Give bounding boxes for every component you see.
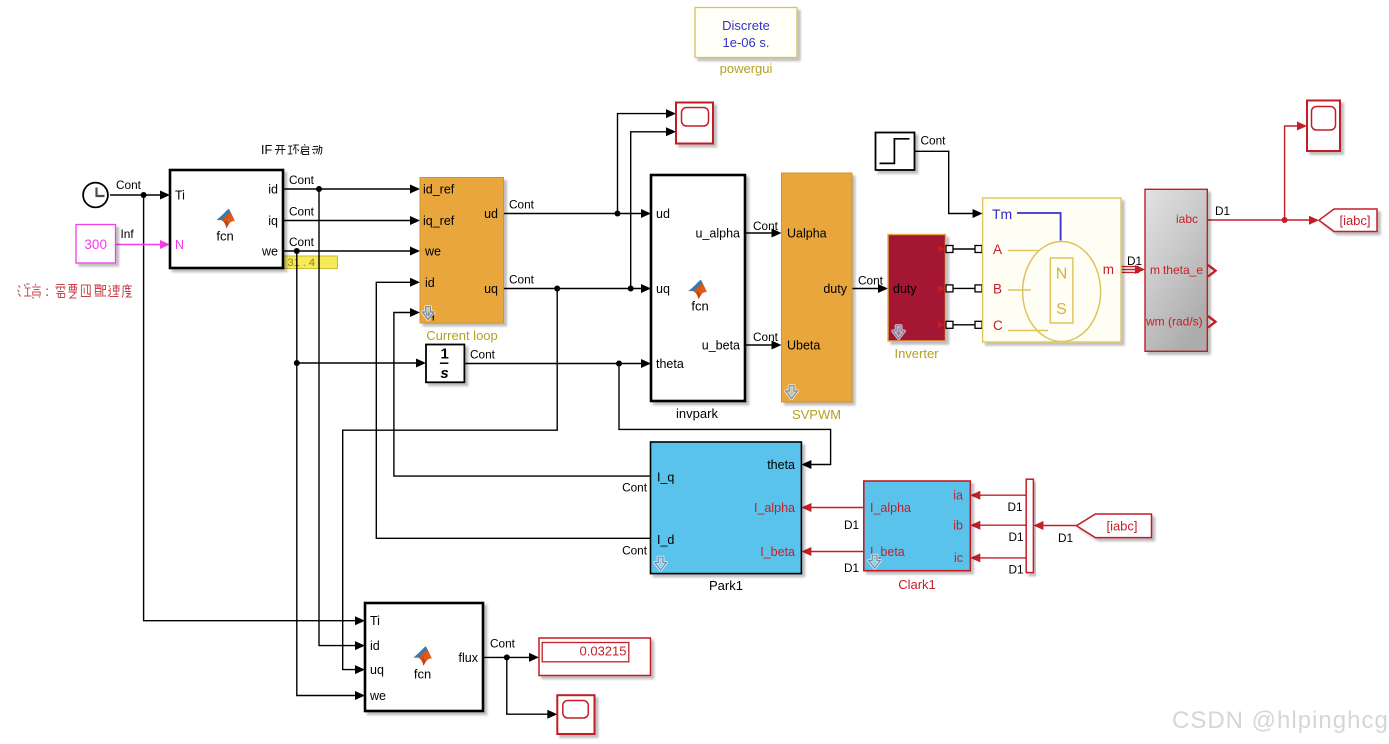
svg-text:CSDN @hlpinghcg: CSDN @hlpinghcg: [1172, 707, 1389, 734]
svg-text:m: m: [1150, 263, 1160, 277]
svg-text:D1: D1: [1058, 531, 1073, 545]
svg-text:theta: theta: [767, 458, 795, 472]
wire fcn2 flux to display: [483, 656, 534, 658]
arrow into scope1 input2: [666, 127, 676, 136]
fcn block U2 (flux MATLAB Function): [365, 603, 483, 711]
svg-text:Inverter: Inverter: [894, 346, 939, 361]
svg-text:we: we: [261, 245, 278, 259]
svg-text:C: C: [993, 318, 1003, 333]
wire clock to fcn1 Ti: [110, 194, 166, 196]
wire integrator to invpark theta: [464, 363, 646, 365]
svg-text:1e-06 s.: 1e-06 s.: [723, 35, 770, 50]
Clark1 subsystem: [864, 481, 971, 571]
arrow into Currentloop iq_ref: [410, 216, 420, 225]
wire we branch to integrator: [297, 362, 421, 364]
wire SVPWM duty to Inverter duty: [852, 288, 883, 290]
glyph 匹: [81, 285, 90, 297]
glyph 开: [275, 146, 286, 155]
wire Clark1 I_beta to Park1 I_beta: [807, 551, 864, 553]
wire clock branch down to fcn2 Ti: [144, 195, 359, 621]
motor stator leads: [1008, 251, 1048, 331]
svg-text:I_alpha: I_alpha: [754, 501, 795, 515]
svg-text:duty: duty: [893, 282, 917, 296]
svg-text:N: N: [1056, 266, 1068, 283]
arrow into fcn2 id: [355, 641, 365, 650]
svg-text:Cont: Cont: [753, 219, 779, 233]
Inverter output port marks: [938, 246, 945, 329]
svg-text:A: A: [993, 242, 1002, 257]
svg-text:ic: ic: [954, 551, 963, 565]
svg-text:Cont: Cont: [921, 134, 947, 148]
svg-text:[iabc]: [iabc]: [1339, 213, 1370, 228]
Current loop badge: [422, 307, 434, 320]
svg-text:Ti: Ti: [370, 614, 380, 628]
goto tag [iabc]: [1319, 209, 1377, 232]
glyph 动: [312, 145, 322, 155]
wire Currentloop uq to invpark uq: [504, 288, 647, 290]
Park1 subsystem: [651, 442, 802, 574]
wire ud branch up to scope1: [618, 114, 672, 214]
svg-text:Cont: Cont: [509, 273, 535, 287]
fcn block U1 (IF startup MATLAB Function): [170, 170, 283, 268]
wire id branch down to fcn2 id: [319, 189, 359, 646]
glyph 要: [68, 285, 77, 299]
arrow into fcn2 uq: [355, 665, 365, 674]
node clock branch: [141, 192, 147, 198]
svg-text:SVPWM: SVPWM: [792, 407, 841, 422]
arrow into Park1 theta (pointing left): [801, 460, 811, 469]
wire fcn1 we to Currentloop we: [283, 250, 416, 252]
inverter-motor connector pads: [946, 246, 982, 329]
arrow into scope1 input1: [666, 109, 676, 118]
arrow into Currentloop we: [410, 247, 420, 256]
arrow into Inverter duty: [878, 284, 888, 293]
glyph 速: [108, 285, 120, 297]
svg-text:D1: D1: [844, 561, 859, 575]
wire iabc branch up to scope3: [1285, 126, 1302, 220]
node theta branch: [616, 361, 622, 367]
svg-text:wm (rad/s): wm (rad/s): [1145, 315, 1203, 329]
svg-text:D1: D1: [1127, 254, 1142, 268]
svg-text:we: we: [424, 245, 441, 259]
wire inverter A to motor A: [950, 248, 979, 250]
SVPWM badge: [786, 386, 798, 399]
svg-text:ia: ia: [953, 489, 963, 503]
svg-text:IF: IF: [261, 143, 272, 157]
svg-text:theta: theta: [656, 357, 684, 371]
wire theta branch to Park1 theta: [619, 364, 831, 465]
svg-text:I_beta: I_beta: [760, 545, 795, 559]
measurement gray block: [1145, 189, 1207, 351]
PMSM motor block: [983, 198, 1121, 342]
svg-text:D1: D1: [1215, 204, 1230, 218]
svg-text:iq: iq: [268, 214, 278, 228]
wire invpark u_alpha to SVPWM Ualpha: [745, 232, 777, 234]
svg-text:Cont: Cont: [289, 205, 315, 219]
wire fcn1 iq to Currentloop iq_ref: [283, 220, 416, 222]
arrow into display: [529, 653, 539, 662]
arrow into goto tag: [1309, 216, 1319, 225]
arrow into Currentloop iq: [410, 308, 420, 317]
svg-text:Ualpha: Ualpha: [787, 227, 827, 241]
node flux branch: [504, 654, 510, 660]
Inverter subsystem: [888, 235, 946, 342]
svg-text:iq_ref: iq_ref: [423, 214, 455, 228]
svg-text:Cont: Cont: [490, 637, 516, 651]
constant 300 block: [76, 225, 116, 264]
wire From tag to bus: [1039, 525, 1077, 527]
glyph 意: [32, 284, 40, 299]
svg-text:Ubeta: Ubeta: [787, 339, 820, 353]
wire inverter C to motor C: [950, 324, 979, 326]
wire fcn1 id to Currentloop id_ref: [283, 188, 416, 190]
svg-text:u_alpha: u_alpha: [696, 227, 741, 241]
wire Park1 I_q to Currentloop iq: [394, 313, 651, 477]
svg-text:fcn: fcn: [414, 667, 431, 682]
node uq branch up: [628, 286, 634, 292]
arrow into Currentloop id_ref: [410, 185, 420, 194]
wire Currentloop ud to invpark ud: [504, 213, 647, 215]
wire uq branch down to fcn2 uq: [343, 289, 558, 670]
svg-text:Cont: Cont: [858, 274, 884, 288]
from tag [iabc]: [1077, 514, 1152, 538]
svg-text:uq: uq: [484, 282, 498, 296]
wire bus to Clark1 ib: [976, 524, 1027, 526]
svg-text:Tm: Tm: [992, 206, 1012, 222]
arrow into Park1 I_beta (left): [801, 547, 811, 556]
arrow into bus selector (left): [1033, 521, 1043, 530]
svg-text:Clark1: Clark1: [898, 577, 936, 592]
arrow into Clark1 ib (left): [970, 521, 980, 530]
wire bus to Clark1 ia: [976, 494, 1027, 496]
glyph 配: [94, 285, 106, 296]
wire uq branch up to scope1: [631, 132, 671, 289]
arrow into invpark theta: [641, 359, 651, 368]
wire we branch down to fcn2 we: [297, 251, 359, 696]
svg-text:1: 1: [441, 346, 449, 363]
svg-text:D1: D1: [1009, 530, 1024, 544]
svg-text:flux: flux: [459, 651, 479, 665]
integrator block 1/s: [426, 345, 464, 383]
invpark fcn block: [651, 175, 745, 401]
wire invpark u_beta to SVPWM Ubeta: [745, 344, 777, 346]
arrow into fcn1 Ti: [160, 191, 170, 200]
wire constant to fcn1 N (magenta): [116, 240, 171, 249]
node we branch: [294, 248, 300, 254]
Clark1 badge: [869, 555, 881, 568]
svg-text:I_q: I_q: [657, 471, 674, 485]
svg-text:N: N: [175, 238, 184, 252]
svg-text:id: id: [268, 183, 278, 197]
arrow motor m bus into gray block: [1135, 265, 1145, 274]
glyph 需: [55, 285, 65, 298]
svg-text:Cont: Cont: [289, 173, 315, 187]
arrow into Park1 I_alpha (left): [801, 503, 811, 512]
scope Scope1 (top middle): [676, 103, 713, 144]
clock block: [83, 183, 108, 208]
black wire arrowheads: [160, 109, 983, 719]
svg-text:u_beta: u_beta: [702, 339, 740, 353]
svg-text:we: we: [369, 689, 386, 703]
svg-text:Cont: Cont: [289, 235, 315, 249]
svg-text:fcn: fcn: [216, 229, 233, 244]
powergui block: [695, 8, 797, 58]
svg-text:s: s: [440, 365, 448, 382]
svg-text:Discrete: Discrete: [722, 18, 770, 33]
bus selector: [1026, 479, 1033, 572]
svg-text:uq: uq: [370, 663, 384, 677]
svg-text:Cont: Cont: [509, 198, 535, 212]
Current loop subsystem: [420, 178, 504, 324]
svg-text:0.03215: 0.03215: [580, 644, 627, 659]
svg-text:D1: D1: [844, 518, 859, 532]
glyph 注: [17, 284, 31, 297]
svg-text:I_alpha: I_alpha: [870, 501, 911, 515]
svg-text:300: 300: [84, 237, 107, 252]
svg-text:Ti: Ti: [175, 189, 185, 203]
svg-text:ud: ud: [656, 207, 670, 221]
Park1 badge: [655, 557, 667, 570]
arrow into Currentloop id: [410, 278, 420, 287]
gray block output port arrows: [1208, 265, 1216, 328]
value tooltip 31.4: [284, 256, 338, 269]
svg-text:Inf: Inf: [121, 227, 135, 241]
node ud branch: [615, 211, 621, 217]
SVPWM subsystem: [782, 173, 853, 402]
svg-text:Park1: Park1: [709, 578, 743, 593]
svg-text:id: id: [425, 276, 435, 290]
node uq branch down: [554, 286, 560, 292]
wire iabc from gray block to goto tag: [1207, 219, 1314, 221]
wire bus to Clark1 ic: [976, 557, 1027, 559]
node iabc branch: [1282, 217, 1288, 223]
svg-text:I_d: I_d: [657, 533, 674, 547]
svg-text:D1: D1: [1008, 500, 1023, 514]
svg-text:uq: uq: [656, 282, 670, 296]
display block 0.03215: [539, 638, 651, 676]
svg-text:id_ref: id_ref: [423, 183, 455, 197]
glyph 启: [301, 144, 309, 155]
svg-text:Cont: Cont: [470, 348, 496, 362]
glyph 度: [122, 284, 132, 298]
arrow into Clark1 ia (left): [970, 491, 980, 500]
svg-text:Cont: Cont: [622, 544, 648, 558]
node id branch: [316, 186, 322, 192]
arrow into scope2: [547, 710, 557, 719]
arrow into fcn2 Ti: [355, 616, 365, 625]
Inverter badge: [893, 326, 905, 339]
wire step to motor Tm: [915, 151, 978, 213]
svg-text:Cont: Cont: [116, 178, 142, 192]
svg-text:ud: ud: [484, 207, 498, 221]
wire inverter B to motor B: [950, 287, 979, 289]
arrow into invpark ud: [641, 209, 651, 218]
wire motor m bus triple line: [1121, 267, 1139, 273]
arrow into integrator: [416, 359, 426, 368]
svg-text:ib: ib: [953, 519, 963, 533]
arrow into SVPWM Ubeta: [772, 341, 782, 350]
annotation caution note CJK red strokes: [17, 284, 131, 299]
node we-integrator branch: [294, 360, 300, 366]
glyph 环: [288, 145, 299, 154]
arrow into fcn2 we: [355, 691, 365, 700]
svg-text:invpark: invpark: [676, 406, 718, 421]
motor magnet: [1050, 258, 1073, 323]
svg-text:B: B: [993, 282, 1002, 297]
svg-text:fcn: fcn: [691, 299, 708, 314]
svg-text:id: id: [370, 639, 380, 653]
svg-text:Cont: Cont: [753, 330, 779, 344]
svg-text:Cont: Cont: [622, 481, 648, 495]
annotation CJK kai-huan-qi-dong drawn strokes: [275, 144, 322, 155]
arrow into SVPWM Ualpha: [772, 229, 782, 238]
junction dots black: [141, 186, 634, 660]
arrow into motor Tm: [973, 209, 983, 218]
arrow into invpark uq: [641, 284, 651, 293]
svg-text:S: S: [1056, 301, 1067, 318]
svg-text:duty: duty: [823, 282, 847, 296]
svg-text:D1: D1: [1009, 563, 1024, 577]
svg-text:m: m: [1103, 262, 1114, 277]
svg-text:Current loop: Current loop: [426, 328, 498, 343]
wire Park1 I_d to Currentloop id: [376, 282, 650, 538]
scope Scope2 (bottom): [557, 695, 594, 734]
motor rotor ellipse: [1023, 242, 1101, 342]
svg-text:theta_e: theta_e: [1163, 263, 1203, 277]
svg-text:[iabc]: [iabc]: [1106, 519, 1137, 534]
svg-text:powergui: powergui: [720, 61, 773, 76]
wire flux branch down to scope2: [507, 657, 552, 714]
step block: [876, 133, 915, 171]
red arrowheads: [801, 122, 1319, 563]
arrow into Clark1 ic (left): [970, 553, 980, 562]
scope Scope3 (top right): [1307, 101, 1340, 152]
svg-text:iabc: iabc: [1176, 212, 1198, 226]
arrow into scope3: [1297, 122, 1307, 131]
wire Clark1 I_alpha to Park1 I_alpha: [807, 507, 864, 509]
glyph ：: [46, 289, 48, 297]
